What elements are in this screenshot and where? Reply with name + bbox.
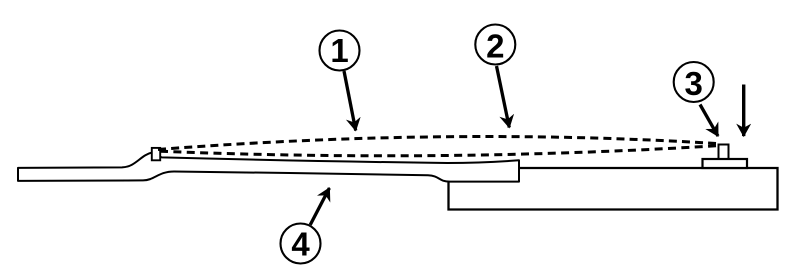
leader arrow 1 [344,71,356,131]
svg-text:1: 1 [330,32,348,69]
clip (spring anchor block) [152,148,160,160]
spring position 2 (dashed, lower) [160,146,716,156]
svg-text:2: 2 [486,28,504,65]
svg-text:3: 3 [685,65,703,102]
base (switch housing) [449,168,778,210]
callout circle 1 [320,31,360,71]
callout circle 4 [281,224,321,264]
callout circle 3 [674,62,714,102]
pin 3 (plunger stem) [719,145,729,161]
svg-text:4: 4 [291,226,310,263]
spring position 1 (dashed, free/raised) [158,137,716,150]
lever 4 (actuator plate) [18,152,519,181]
leader arrow 4 [310,188,329,225]
force arrow (press direction) [742,85,745,137]
leader arrow 2 [497,66,510,128]
pad (plunger cap) [703,159,748,168]
callout circle 2 [475,25,515,65]
leader arrow 3 [700,105,718,137]
